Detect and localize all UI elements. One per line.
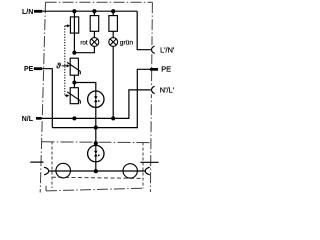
decoupling element right [123,164,137,178]
svg-text:N'/L': N'/L' [160,86,175,95]
plug contact N'/L' [152,86,155,93]
wire: fuse branch vertical [73,11,75,53]
wire: bottom left stub [30,161,43,163]
arrow to varistor R2 [66,94,69,97]
wire: varistor1 to node A [73,75,75,88]
wire: gruen lamp branch [112,11,114,38]
varistor R2 [67,88,80,104]
wire: rot lamp branch [93,11,95,38]
wire: PE rail to GDT2 and bottom line [95,128,97,171]
resistor for rot lamp [90,16,99,32]
terminal bar PE right [150,68,158,71]
svg-text:ϑ: ϑ [55,61,61,70]
svg-text:PE: PE [24,66,34,73]
varistor R1 [67,58,80,75]
wire: bottom right stub [141,161,159,163]
wire: N rail [42,90,152,119]
enclosure top boundary [46,1,153,3]
thermal disconnect dotted link [62,26,68,96]
dashed box right edge [142,143,144,189]
gas discharge tube F2 [88,91,104,107]
terminal bar PE left [34,67,42,70]
dashed box left edge [51,142,53,189]
bottom boundary left tick [45,186,47,191]
module divider dash-dot line [42,141,152,144]
junction: fuse branch on L/N rail [72,9,76,13]
junction: varistor R2 on N rail [72,116,76,120]
resistor for gruen lamp [109,16,118,32]
wire: L/N top rail [42,10,137,12]
svg-text:L'/N': L'/N' [160,45,175,54]
boundary gaps at plug contacts [151,45,154,54]
junction: gruen lamp branch on L/N rail [111,9,115,13]
junction: rot lamp branch on L/N rail [92,9,96,13]
svg-text:grün: grün [120,39,134,46]
svg-text:PE: PE [161,65,171,74]
enclosure bottom boundary [46,188,143,191]
decoupling element left [56,163,71,178]
svg-text:rot: rot [80,39,88,46]
wire: gruen lamp down to N rail [112,46,114,118]
lamp rot [90,38,99,47]
wire: PE left input [42,69,52,128]
gas discharge tube F3 (lower module) [88,145,104,161]
svg-text:N/L: N/L [22,116,34,123]
junction: gruen lamp on N rail [111,116,115,120]
lamp gruen [109,38,118,47]
terminal bar N/L [36,117,42,120]
wire: PE rail [52,69,150,127]
junction: GDT F3 on data line [94,169,98,173]
wire: GDT1 down to PE rail [95,107,97,127]
arrow to fuse [67,24,70,27]
svg-text:L/N: L/N [22,9,33,16]
terminal bar L/N [34,10,42,13]
fuse F1 [70,17,78,33]
plug contact L'/N' [152,46,155,53]
wire: rot lamp to fuse node [74,46,94,52]
enclosure right boundary [150,2,152,192]
enclosure left boundary [40,2,45,192]
junction: fuse output / rot lamp node [72,51,76,55]
arrow to varistor R1 [67,64,70,67]
junction: GDT F2 on PE rail [94,126,98,130]
wire: bottom data line [49,170,145,172]
junction: node A between varistors [72,80,76,84]
junction: GDT F3 at module divider [94,141,98,145]
plug contact bottom right [145,167,150,175]
wire: node A to GDT1 [74,83,95,92]
dashed box bottom edge [52,177,143,178]
wire: drop to L'/N' output [137,11,151,50]
plug contact bottom left [44,167,49,175]
